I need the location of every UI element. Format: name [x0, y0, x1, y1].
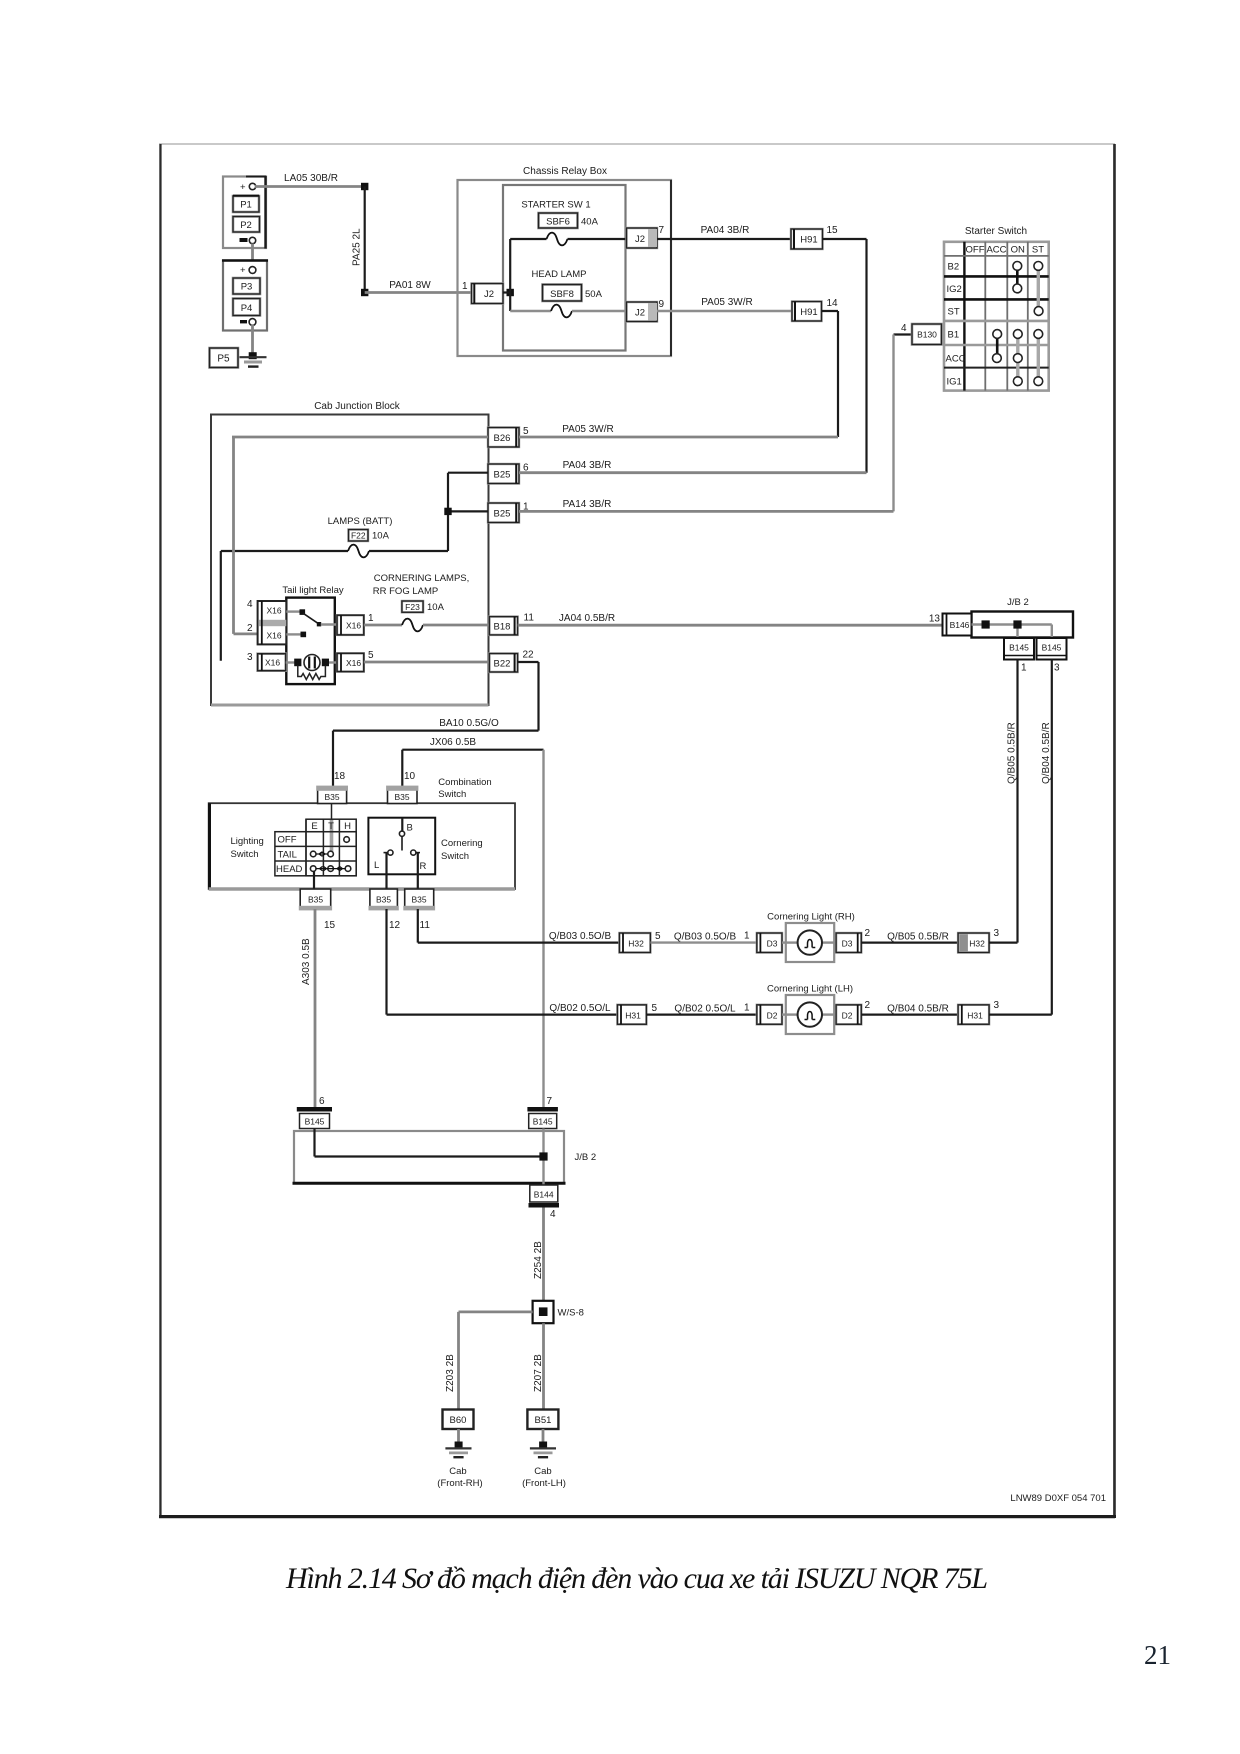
- wire Q/B03 0.5O/B (H32 to D3): [650, 931, 756, 943]
- connector B145 pin 6: [297, 1096, 332, 1129]
- svg-text:Z207 2B: Z207 2B: [533, 1354, 544, 1392]
- wire PA05 3W/R (B26 row): [519, 424, 838, 437]
- svg-text:+: +: [240, 265, 246, 276]
- svg-text:1: 1: [744, 931, 750, 942]
- connector B18 pin 11: [489, 613, 534, 635]
- connector B146 pin 13: [929, 614, 972, 636]
- page number: [1144, 1640, 1171, 1671]
- relay switch contact: [286, 609, 337, 626]
- wire Q/B04 0.5B/R (D2 to H31): [861, 1004, 958, 1015]
- battery box 1 (P1/P2): [223, 176, 266, 249]
- svg-text:LA05 30B/R: LA05 30B/R: [284, 173, 338, 184]
- svg-text:D3: D3: [842, 939, 853, 949]
- connector B35 pin 11: [403, 889, 435, 931]
- Lighting Switch label: [231, 836, 264, 860]
- connector D3 (right): [836, 928, 870, 953]
- svg-text:3: 3: [247, 652, 253, 663]
- starter switch contact link B2-ST (ST): [1037, 268, 1040, 309]
- J/B2 internal wire B145-6 to junction: [315, 1129, 544, 1157]
- wire cornering L to B35-12: [385, 853, 387, 889]
- fuse F23 10A (CORNERING LAMPS, RR FOG LAMP): [373, 573, 470, 613]
- cornering switch B terminal: [399, 818, 412, 851]
- svg-text:4: 4: [901, 323, 907, 334]
- svg-text:D2: D2: [767, 1011, 778, 1021]
- svg-text:JX06 0.5B: JX06 0.5B: [430, 737, 476, 748]
- lighting switch contacts TAIL row: [310, 851, 333, 857]
- svg-text:X16: X16: [346, 658, 361, 668]
- svg-text:1: 1: [462, 281, 468, 292]
- connector B35 pin 15: [299, 889, 336, 931]
- svg-text:B2: B2: [948, 262, 960, 273]
- connector B145 pin 1: [1004, 638, 1034, 674]
- svg-text:Q/B04 0.5B/R: Q/B04 0.5B/R: [1041, 722, 1052, 784]
- svg-text:SBF6: SBF6: [546, 217, 570, 228]
- svg-text:Cornering: Cornering: [441, 838, 483, 849]
- connector B130 pin 4: [901, 323, 942, 345]
- svg-text:ACC: ACC: [946, 354, 966, 365]
- wire Q/B05 0.5B/R (D3 to H32): [861, 932, 958, 943]
- svg-text:D2: D2: [842, 1011, 853, 1021]
- wire B26 to taillight relay (X16 pin 2): [232, 437, 488, 634]
- svg-text:40A: 40A: [581, 217, 599, 228]
- svg-text:Q/B05 0.5B/R: Q/B05 0.5B/R: [887, 932, 949, 943]
- svg-text:B145: B145: [1042, 643, 1062, 653]
- wire battery1 minus to battery2 plus: [251, 244, 254, 268]
- svg-text:3: 3: [1054, 663, 1060, 674]
- svg-text:L: L: [374, 860, 379, 871]
- svg-text:J/B 2: J/B 2: [1007, 597, 1029, 608]
- wire H31-3 up to B145-3: [989, 1013, 1052, 1015]
- connector X16 pin 1 (relay right): [337, 613, 374, 635]
- svg-text:JA04 0.5B/R: JA04 0.5B/R: [559, 613, 615, 624]
- svg-text:PA05 3W/R: PA05 3W/R: [701, 297, 753, 308]
- svg-text:CORNERING LAMPS,: CORNERING LAMPS,: [374, 573, 470, 584]
- relay coil parallel resistor: [298, 666, 326, 680]
- wire PA04 3B/R to B25 pin 6: [823, 239, 867, 473]
- svg-text:3: 3: [994, 928, 1000, 939]
- Combination Switch: [209, 777, 515, 889]
- connector B35 pin 18: [316, 771, 348, 804]
- svg-text:W/S-8: W/S-8: [558, 1308, 584, 1319]
- Chassis Relay Box: [458, 166, 672, 356]
- connector B22 pin 22: [489, 650, 534, 673]
- wire PA04 3B/R (B25 row): [519, 460, 867, 473]
- svg-text:5: 5: [368, 650, 374, 661]
- svg-text:5: 5: [652, 1003, 658, 1014]
- svg-text:ST: ST: [948, 307, 960, 318]
- connector B144 pin 4: [529, 1185, 560, 1220]
- svg-text:7: 7: [659, 225, 665, 236]
- caption: [286, 1562, 986, 1596]
- starter switch contact link B1-IG1 (ST): [1037, 336, 1040, 379]
- svg-text:D3: D3: [767, 939, 778, 949]
- svg-text:2: 2: [865, 928, 871, 939]
- wire Z203 2B (W/S-8 to B60): [445, 1312, 533, 1410]
- svg-text:5: 5: [523, 426, 529, 437]
- svg-text:50A: 50A: [585, 289, 603, 300]
- wire Z254 2B (B144 to W/S-8): [533, 1208, 544, 1301]
- connector B25 pin 6: [488, 463, 529, 484]
- svg-text:J2: J2: [484, 289, 494, 300]
- svg-text:11: 11: [524, 613, 535, 624]
- wire PA14 3B/R to B130 pin 4: [894, 335, 913, 512]
- svg-text:H31: H31: [625, 1011, 641, 1021]
- svg-text:Chassis Relay Box: Chassis Relay Box: [523, 166, 607, 177]
- connector H31 pin 3: [958, 1000, 999, 1024]
- svg-text:IG2: IG2: [947, 284, 962, 295]
- svg-text:B: B: [407, 823, 413, 834]
- wire Q/B02 0.5O/L (H31 to D2): [646, 1003, 756, 1015]
- connector H91 pin 14: [792, 298, 838, 321]
- Cab Junction Block: [211, 401, 489, 705]
- svg-text:1: 1: [1021, 663, 1027, 674]
- battery box 2 (P3/P4): [222, 261, 268, 331]
- svg-text:Switch: Switch: [231, 849, 259, 860]
- svg-text:3: 3: [994, 1000, 1000, 1011]
- svg-text:22: 22: [523, 650, 535, 661]
- wire X16 pin1 to B18 (via fuse F23): [364, 619, 490, 632]
- svg-text:Q/B02 0.5O/L: Q/B02 0.5O/L: [549, 1003, 611, 1014]
- svg-text:Lighting: Lighting: [231, 836, 264, 847]
- svg-text:B145: B145: [305, 1117, 325, 1127]
- wire Q/B03 0.5O/B (B35-11 to H32): [418, 909, 620, 943]
- connector D2 (left): [757, 1005, 782, 1025]
- wire lighting switch to B35-15: [313, 871, 315, 889]
- svg-text:Switch: Switch: [441, 851, 469, 862]
- wire Q/B02 0.5O/L (B35-12 to H31): [387, 909, 618, 1015]
- connector B145 pin 3: [1037, 638, 1067, 674]
- svg-text:5: 5: [655, 931, 661, 942]
- svg-text:Q/B04 0.5B/R: Q/B04 0.5B/R: [887, 1004, 949, 1015]
- fuse F22 10A (LAMPS BATT): [221, 516, 448, 557]
- svg-text:7: 7: [547, 1096, 553, 1107]
- fusible link P4: [233, 299, 260, 326]
- cornering lamp LH: [782, 995, 836, 1034]
- svg-text:X16: X16: [266, 606, 281, 616]
- svg-text:F22: F22: [351, 531, 366, 541]
- wire PA25 2L (vertical): [352, 187, 369, 297]
- svg-text:B26: B26: [494, 433, 511, 444]
- wire Q/B04 0.5B/R (B145-3 down to cornering light LH): [1041, 660, 1052, 1015]
- connector B60: [443, 1410, 474, 1430]
- svg-text:4: 4: [247, 599, 253, 610]
- svg-text:B35: B35: [394, 792, 409, 802]
- Cornering Switch: [368, 818, 482, 875]
- svg-text:Q/B03 0.5O/B: Q/B03 0.5O/B: [549, 931, 612, 942]
- connector X16 pin 5 (relay right lower): [337, 650, 374, 672]
- svg-text:B145: B145: [533, 1117, 553, 1127]
- svg-text:11: 11: [420, 920, 431, 931]
- svg-text:4: 4: [550, 1209, 556, 1220]
- fuse SBF6 40A (STARTER SW 1): [510, 200, 626, 246]
- relay coil: [286, 655, 337, 671]
- internal wire B25-6/B25-1 to fuse F22: [444, 473, 488, 551]
- wire JA04 0.5B/R: [518, 613, 943, 625]
- relay pin2 contact stub: [286, 632, 306, 638]
- connector J2 pin 7 (output): [627, 225, 665, 248]
- svg-text:10A: 10A: [372, 531, 390, 542]
- svg-text:H32: H32: [628, 939, 644, 949]
- svg-text:B18: B18: [494, 622, 511, 633]
- svg-text:STARTER SW 1: STARTER SW 1: [521, 200, 590, 211]
- connector H91 pin 15: [791, 225, 838, 249]
- svg-text:B25: B25: [494, 509, 511, 520]
- fuse SBF8 50A (HEAD LAMP): [510, 269, 626, 317]
- svg-text:PA05 3W/R: PA05 3W/R: [562, 424, 614, 435]
- wire battery2 minus to ground: [251, 325, 254, 354]
- svg-text:A303 0.5B: A303 0.5B: [301, 938, 312, 985]
- connector J2 pin 1 (input): [462, 281, 503, 304]
- svg-text:2: 2: [247, 623, 253, 634]
- connector B35 pin 10: [386, 771, 418, 804]
- wire BA10 0.5G/O (B22 to combination switch B35-18): [333, 662, 539, 787]
- connector B35 pin 12: [369, 889, 401, 931]
- svg-text:PA25 2L: PA25 2L: [352, 228, 363, 266]
- connector B25 pin 1: [488, 502, 529, 523]
- svg-text:H91: H91: [800, 307, 817, 318]
- svg-text:PA04 3B/R: PA04 3B/R: [563, 460, 612, 471]
- node: fuse feed junction: [503, 239, 514, 311]
- svg-text:H31: H31: [967, 1011, 983, 1021]
- svg-text:J/B 2: J/B 2: [575, 1152, 597, 1163]
- svg-text:Q/B03 0.5O/B: Q/B03 0.5O/B: [674, 932, 737, 943]
- connector D3 (left): [757, 933, 782, 953]
- connector B26 pin 5: [488, 426, 529, 447]
- starter switch contact link B1-ACC (ACC): [996, 336, 999, 356]
- svg-text:Cab: Cab: [449, 1466, 466, 1477]
- svg-text:HEAD: HEAD: [276, 864, 303, 875]
- svg-text:HEAD LAMP: HEAD LAMP: [532, 269, 587, 280]
- svg-text:(Front-LH): (Front-LH): [522, 1478, 566, 1489]
- svg-text:H32: H32: [969, 939, 985, 949]
- connector D2 (right): [836, 1000, 870, 1024]
- svg-text:(Front-RH): (Front-RH): [437, 1478, 482, 1489]
- svg-text:B51: B51: [535, 1415, 552, 1426]
- svg-text:ST: ST: [1032, 245, 1044, 256]
- ground (battery): [240, 352, 267, 366]
- svg-text:B146: B146: [950, 620, 970, 630]
- connector H32 pin 3: [958, 928, 999, 953]
- svg-text:J2: J2: [635, 308, 645, 319]
- svg-text:F23: F23: [405, 602, 420, 612]
- svg-text:6: 6: [319, 1096, 325, 1107]
- svg-text:Q/B05 0.5B/R: Q/B05 0.5B/R: [1007, 722, 1018, 784]
- fusible link P2: [233, 217, 260, 244]
- svg-text:Cab Junction Block: Cab Junction Block: [314, 401, 401, 412]
- svg-text:E: E: [311, 821, 317, 832]
- Starter Switch table: [944, 226, 1049, 391]
- wire X16 pin5 to B22: [364, 661, 490, 664]
- lighting switch contacts OFF row: [344, 837, 350, 843]
- svg-text:B35: B35: [324, 792, 339, 802]
- svg-text:LAMPS (BATT): LAMPS (BATT): [328, 516, 393, 527]
- svg-text:PA01 8W: PA01 8W: [389, 280, 431, 291]
- svg-text:X16: X16: [266, 631, 281, 641]
- svg-text:R: R: [420, 861, 427, 872]
- svg-text:ACC: ACC: [986, 245, 1006, 256]
- connector H32 pin 5: [619, 931, 661, 953]
- svg-text:15: 15: [827, 225, 839, 236]
- lighting switch contacts HEAD row: [310, 866, 350, 872]
- svg-text:Cab: Cab: [534, 1466, 551, 1477]
- wire Z207 2B (W/S-8 to B51): [533, 1323, 544, 1409]
- lighting switch wire from B35-18 into T column: [331, 804, 333, 821]
- Tail light Relay: [282, 585, 343, 684]
- svg-text:+: +: [240, 182, 246, 193]
- wire Q/B05 0.5B/R (B145-1 down to cornering light RH): [1007, 660, 1018, 943]
- svg-text:14: 14: [827, 298, 839, 309]
- svg-text:RR FOG LAMP: RR FOG LAMP: [373, 586, 438, 597]
- wire cornering R to B35-11: [417, 853, 419, 889]
- junction W/S-8: [533, 1301, 584, 1323]
- cornering lamp RH: [782, 923, 836, 962]
- svg-text:B25: B25: [494, 470, 511, 481]
- svg-text:B60: B60: [450, 1415, 467, 1426]
- svg-text:H: H: [344, 821, 351, 832]
- wire PA04 3B/R: [657, 225, 791, 239]
- connector X16 pins 4/2 (relay left): [247, 599, 286, 644]
- wire H32-3 up to B145-1: [989, 941, 1017, 943]
- svg-text:B35: B35: [376, 895, 391, 905]
- svg-text:P5: P5: [217, 354, 230, 365]
- wire JX06 0.5B (B35-10 to B145-7): [402, 737, 543, 1107]
- svg-text:P3: P3: [241, 282, 253, 293]
- svg-text:P4: P4: [241, 303, 253, 314]
- svg-text:Switch: Switch: [438, 789, 466, 800]
- cornering switch L/R contacts: [374, 850, 427, 872]
- svg-text:B35: B35: [411, 895, 426, 905]
- svg-text:Starter Switch: Starter Switch: [965, 226, 1027, 237]
- wire PA05 3W/R to B26 pin 5: [822, 311, 839, 437]
- svg-text:B144: B144: [534, 1190, 554, 1200]
- svg-text:Cornering Light (RH): Cornering Light (RH): [767, 912, 855, 923]
- svg-text:Z254 2B: Z254 2B: [533, 1241, 544, 1279]
- wire PA05 3W/R: [657, 297, 792, 311]
- starter switch contact circles: [993, 262, 1044, 386]
- svg-text:18: 18: [334, 771, 346, 782]
- svg-text:B22: B22: [494, 659, 511, 670]
- svg-text:PA04 3B/R: PA04 3B/R: [701, 225, 750, 236]
- connector P5: [210, 348, 239, 368]
- J/B 2 (upper right): [972, 597, 1074, 638]
- svg-text:Cornering Light (LH): Cornering Light (LH): [767, 984, 853, 995]
- lighting switch table: [275, 819, 356, 876]
- svg-text:P2: P2: [240, 220, 252, 231]
- connector X16 pin 3 (relay left lower): [247, 652, 286, 671]
- starter switch contact link B2-IG2 (ON): [1016, 268, 1019, 286]
- svg-text:SBF8: SBF8: [550, 289, 574, 300]
- wire PA01 8W: [365, 280, 472, 293]
- svg-text:IG1: IG1: [947, 377, 962, 388]
- svg-text:PA14 3B/R: PA14 3B/R: [563, 499, 612, 510]
- svg-text:2: 2: [865, 1000, 871, 1011]
- connector H31 pin 5: [617, 1003, 657, 1024]
- wire A303 0.5B (B35-15 to B145-6): [301, 909, 315, 1107]
- svg-text:10: 10: [404, 771, 416, 782]
- svg-text:1: 1: [368, 613, 374, 624]
- svg-text:ON: ON: [1011, 245, 1025, 256]
- svg-text:Combination: Combination: [438, 777, 491, 788]
- svg-text:13: 13: [929, 614, 941, 625]
- fusible link P3: [233, 278, 260, 294]
- svg-text:BA10 0.5G/O: BA10 0.5G/O: [439, 718, 499, 729]
- connector B51: [527, 1410, 558, 1430]
- svg-text:T: T: [328, 821, 334, 832]
- svg-text:X16: X16: [265, 658, 280, 668]
- svg-text:Z203 2B: Z203 2B: [445, 1354, 456, 1392]
- diagram frame: [159, 144, 1116, 1518]
- svg-text:OFF: OFF: [278, 835, 297, 846]
- connector J2 pin 9 (output): [627, 299, 665, 322]
- svg-text:Q/B02 0.5O/L: Q/B02 0.5O/L: [674, 1004, 736, 1015]
- ground Cab (Front-RH): [437, 1429, 482, 1489]
- svg-text:15: 15: [324, 920, 336, 931]
- wire PA14 3B/R (B25 row): [519, 499, 894, 511]
- svg-text:1: 1: [744, 1003, 750, 1014]
- connector B145 pin 7: [527, 1096, 558, 1129]
- J/B2 internal wire B145-7 to B144: [539, 1129, 547, 1186]
- svg-text:J2: J2: [635, 234, 645, 245]
- wire fuse F22 to taillight relay coil (X16 pin 3): [220, 551, 222, 661]
- svg-text:H91: H91: [800, 235, 817, 246]
- svg-text:OFF: OFF: [966, 245, 985, 256]
- svg-text:TAIL: TAIL: [278, 849, 297, 860]
- svg-text:10A: 10A: [427, 602, 445, 613]
- fusible link P1: [233, 196, 259, 212]
- svg-text:Tail light Relay: Tail light Relay: [282, 585, 343, 596]
- J/B 2 (lower): [293, 1131, 597, 1183]
- svg-text:B35: B35: [308, 895, 323, 905]
- svg-text:9: 9: [659, 299, 665, 310]
- starter switch contact link B1-IG1 (ON): [1016, 336, 1019, 379]
- svg-text:12: 12: [389, 920, 401, 931]
- svg-text:B145: B145: [1009, 643, 1029, 653]
- ground Cab (Front-LH): [522, 1429, 566, 1489]
- svg-text:B130: B130: [917, 330, 937, 340]
- J/B 2 internal wire and junctions: [972, 620, 1052, 638]
- svg-text:B1: B1: [948, 330, 960, 341]
- svg-text:X16: X16: [346, 621, 361, 631]
- svg-text:P1: P1: [240, 200, 252, 211]
- wire LA05 30B/R: [255, 173, 368, 190]
- svg-text:LNW89 D0XF 054 701: LNW89 D0XF 054 701: [1010, 1493, 1106, 1504]
